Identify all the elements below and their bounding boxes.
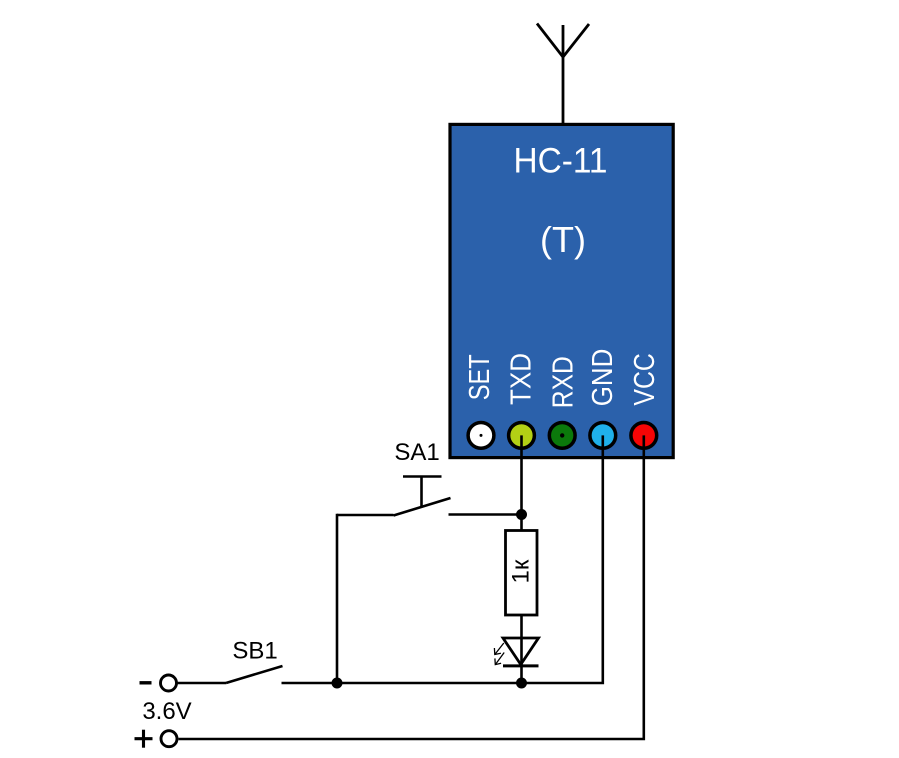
battery plus sign [135, 730, 153, 748]
svg-text:(T): (T) [540, 219, 586, 260]
svg-text:3.6V: 3.6V [142, 698, 191, 725]
resistor R1 body [506, 531, 538, 616]
wire SA1 left branch vertical [336, 514, 339, 683]
wire GND vertical and bottom rail (minus) [282, 435, 603, 683]
svg-text:HC-11: HC-11 [514, 142, 608, 181]
pin SET [468, 423, 494, 449]
svg-text:SA1: SA1 [394, 439, 439, 466]
wire SA1 right contact to TXD node [449, 513, 522, 516]
LED emission arrow 1 [494, 643, 503, 655]
svg-text:TXD: TXD [505, 353, 537, 405]
junction LED / bottom rail [516, 678, 527, 689]
pin GND [590, 423, 616, 449]
antenna [537, 24, 589, 125]
pin TXD [509, 423, 535, 449]
pushbutton SA1 stem [420, 477, 423, 507]
svg-text:SET: SET [464, 354, 496, 400]
wire resistor to LED and cathode down [520, 615, 523, 683]
junction TXD / SA1 node [516, 509, 527, 520]
wire VCC vertical and battery plus rail [179, 435, 644, 739]
switch SB1 blade [226, 666, 283, 683]
svg-text:SB1: SB1 [232, 638, 277, 665]
pin VCC [631, 423, 657, 449]
junction SA1 branch / bottom rail [332, 678, 343, 689]
LED cathode bar [503, 664, 539, 667]
svg-text:RXD: RXD [547, 356, 579, 408]
wire TXD vertical [520, 435, 523, 530]
wire SA1 left contact [337, 514, 394, 517]
wire battery minus to SB1 [177, 682, 227, 685]
LED emission arrow 2 [495, 653, 504, 665]
battery minus terminal [161, 675, 177, 691]
svg-text:1к: 1к [507, 559, 534, 583]
svg-text:GND: GND [587, 349, 619, 407]
svg-text:VCC: VCC [629, 353, 661, 406]
pushbutton SA1 blade [394, 498, 451, 516]
pin RXD [549, 423, 575, 449]
battery minus sign [140, 681, 152, 684]
LED VD1 triangle [503, 638, 539, 665]
pushbutton SA1 cap bar [403, 475, 442, 478]
battery plus terminal [161, 731, 177, 747]
module U1 HC-11 body [450, 124, 673, 457]
